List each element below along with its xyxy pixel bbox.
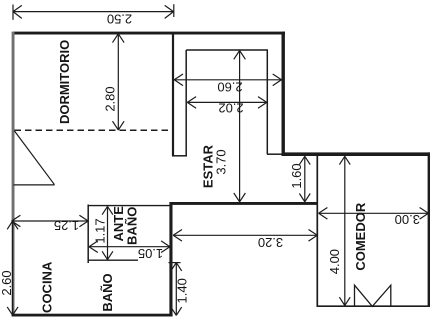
svg-text:2.60: 2.60 — [217, 79, 242, 94]
svg-text:1.25: 1.25 — [54, 218, 79, 233]
svg-text:DORMITORIO: DORMITORIO — [57, 40, 72, 124]
dimension 4.00 vertical COMEDOR — [339, 156, 350, 305]
dim text 2.02 — [218, 101, 243, 116]
label ANTE BANO line1 — [111, 206, 126, 242]
wall COCINA / ANTE BANO partition — [87, 205, 89, 264]
dim text 2.60 balcony — [217, 79, 242, 94]
wall bottom of ESTAR exterior — [170, 202, 318, 205]
dimension 2.60 horizontal balcony — [174, 74, 281, 86]
dashed partition DORMITORIO/COCINA — [15, 129, 173, 131]
svg-text:1.05: 1.05 — [138, 246, 163, 261]
label ESTAR — [201, 144, 216, 188]
svg-text:COMEDOR: COMEDOR — [353, 202, 368, 271]
dim text 1.05 — [138, 246, 163, 261]
dim text 3.70 — [214, 149, 229, 174]
dimension 2.50 line with ticks — [13, 4, 174, 20]
dim text 3.00 — [395, 212, 420, 227]
wall BANO / ANTE BANO partition — [88, 259, 138, 261]
label DORMITORIO — [57, 40, 72, 124]
wall top of ANTE BANO partition — [88, 205, 171, 207]
dim text 4.00 — [327, 249, 342, 274]
label COMEDOR — [353, 202, 368, 271]
window symbol M in COMEDOR — [355, 285, 391, 306]
balcony recess right line — [267, 50, 282, 154]
dim text 1.40 — [174, 278, 189, 303]
wall right of BANO exterior — [169, 202, 172, 316]
svg-text:4.00: 4.00 — [327, 249, 342, 274]
label COCINA — [40, 261, 55, 313]
dimension 1.05 horizontal BANO — [89, 241, 170, 253]
svg-text:2.50: 2.50 — [107, 12, 132, 27]
wall right of COMEDOR exterior — [428, 152, 430, 307]
dimension 1.17 vertical ANTE BANO — [102, 206, 113, 259]
svg-text:3.00: 3.00 — [395, 212, 420, 227]
dimension 2.60 vertical left — [7, 221, 18, 315]
svg-text:2.60: 2.60 — [0, 270, 14, 295]
balcony recess top line — [186, 49, 268, 51]
wall left of COMEDOR — [316, 156, 318, 306]
dimension 2.02 horizontal balcony — [187, 97, 266, 109]
svg-text:BAÑO: BAÑO — [100, 273, 115, 311]
wall right of ESTAR exterior — [282, 32, 285, 156]
svg-text:ANTE: ANTE — [111, 206, 126, 242]
dim text 1.17 — [93, 218, 108, 243]
label ANTE BANO line2 — [125, 207, 140, 245]
dimension 1.25 horizontal COCINA — [12, 215, 89, 227]
dim text 1.25 — [54, 218, 79, 233]
svg-text:2.02: 2.02 — [218, 101, 243, 116]
door swing diagonal — [15, 131, 55, 185]
svg-text:2.80: 2.80 — [103, 86, 118, 111]
wall top of COMEDOR exterior — [282, 152, 431, 156]
wall stub left leg of balcony — [172, 33, 187, 156]
svg-text:BAÑO: BAÑO — [125, 207, 140, 245]
svg-text:3.70: 3.70 — [214, 149, 229, 174]
svg-text:COCINA: COCINA — [40, 261, 55, 313]
dimension 1.40 vertical BANO — [169, 263, 182, 316]
svg-text:3.20: 3.20 — [258, 235, 283, 250]
svg-text:1.60: 1.60 — [289, 163, 304, 188]
wall bottom of COMEDOR — [317, 305, 431, 307]
dim text 2.80 — [103, 86, 118, 111]
dim text 2.60 left — [0, 270, 14, 295]
dim text 2.50 — [107, 12, 132, 27]
dimension 2.80 vertical in DORMITORIO — [113, 34, 125, 130]
door leaf bottom line — [14, 184, 55, 186]
wall left exterior (grey) — [12, 32, 15, 317]
svg-text:1.40: 1.40 — [174, 278, 189, 303]
dimension 3.70 vertical ESTAR — [234, 51, 246, 202]
dimension 3.00 horizontal COMEDOR — [319, 208, 429, 220]
dimension 1.60 vertical — [299, 156, 310, 202]
dimension 3.20 horizontal — [173, 230, 317, 242]
svg-text:1.17: 1.17 — [93, 218, 108, 243]
label BANO — [100, 273, 115, 311]
wall top exterior — [13, 32, 285, 35]
dim text 3.20 — [258, 235, 283, 250]
wall bottom exterior — [12, 314, 173, 317]
dim text 1.60 — [289, 163, 304, 188]
